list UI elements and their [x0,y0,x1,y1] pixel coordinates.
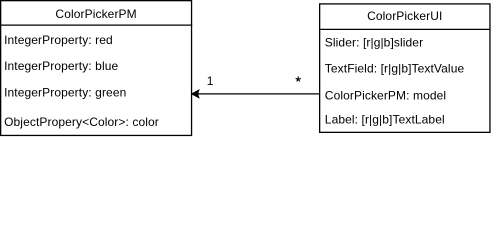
svg-text:IntegerProperty: green: IntegerProperty: green [4,86,126,100]
svg-text:1: 1 [207,74,214,88]
svg-text:Label: [r|g|b]TextLabel: Label: [r|g|b]TextLabel [325,112,445,126]
svg-text:ObjectPropery<Color>: color: ObjectPropery<Color>: color [4,115,159,129]
svg-text:ColorPickerPM: model: ColorPickerPM: model [325,88,446,102]
svg-text:Slider: [r|g|b]slider: Slider: [r|g|b]slider [325,36,423,50]
svg-text:IntegerProperty: red: IntegerProperty: red [4,33,113,47]
svg-text:TextField: [r|g|b]TextValue: TextField: [r|g|b]TextValue [325,61,465,75]
svg-text:ColorPickerUI: ColorPickerUI [367,9,442,23]
svg-text:IntegerProperty: blue: IntegerProperty: blue [4,59,118,73]
svg-text:ColorPickerPM: ColorPickerPM [55,7,136,21]
